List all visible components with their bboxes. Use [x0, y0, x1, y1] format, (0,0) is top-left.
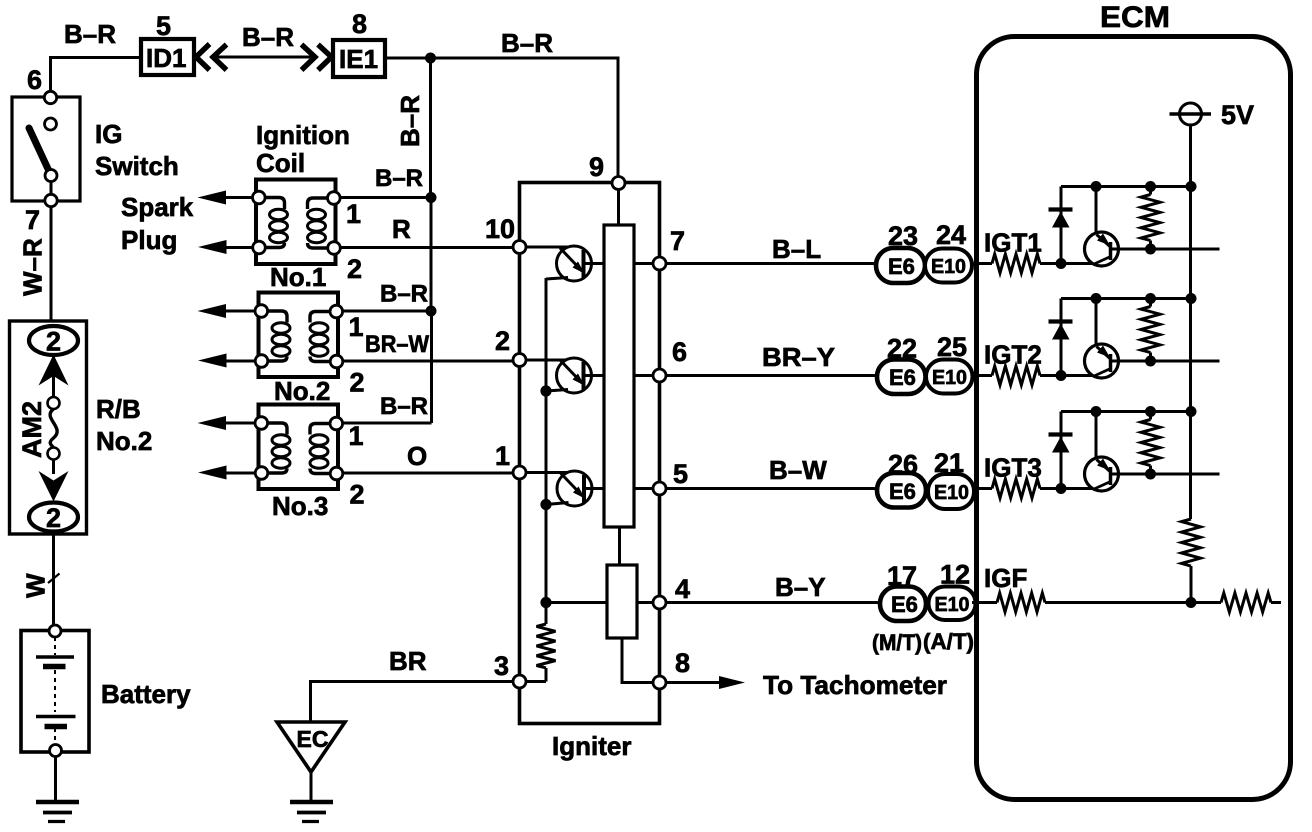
- wire: collector drop to Q4: [1095, 187, 1098, 233]
- svg-text:9: 9: [589, 152, 604, 182]
- igniter pin 1: [513, 466, 526, 479]
- ignition coil No.2: [255, 293, 343, 378]
- svg-text:E10: E10: [934, 482, 969, 504]
- AM2 fuse clip arrow (down): [39, 471, 69, 502]
- resistor (IGT1 pull-up): [1149, 187, 1152, 250]
- svg-text:5V: 5V: [1221, 100, 1254, 130]
- svg-text:W–R: W–R: [18, 238, 48, 296]
- wire: IE1 right, down to igniter pin 9: [385, 58, 618, 180]
- svg-text:B–R: B–R: [375, 165, 423, 192]
- wire: igniter pin 8 to tachometer: [666, 681, 720, 684]
- node: IGT3 diode junction: [1056, 483, 1067, 494]
- wire: taps from resistor block to pins 7,6,5: [634, 264, 653, 489]
- resistor (IGT3 input): [992, 479, 1040, 498]
- wire: pin 9 to ballast resistor block: [617, 189, 620, 225]
- resistor (IGF series right): [1221, 593, 1271, 612]
- wire: collector drop to Q5: [1095, 299, 1098, 345]
- battery internal dashed link: [54, 637, 56, 744]
- AM2 fuse clip arrow (up): [39, 355, 69, 386]
- IG switch lever: [29, 128, 49, 170]
- svg-text:R: R: [392, 214, 411, 244]
- svg-text:E6: E6: [889, 479, 916, 504]
- wire: coil1 pin2 (R) to igniter pin 10: [341, 246, 520, 249]
- svg-text:5: 5: [156, 11, 171, 41]
- resistor (IGT2 pull-up): [1149, 299, 1152, 362]
- igniter pin 8: [653, 676, 666, 689]
- ECM enclosure: [977, 37, 1291, 800]
- diode D3 (clamp): [1049, 432, 1073, 436]
- svg-text:No.3: No.3: [272, 491, 328, 521]
- igniter pin 7: [653, 257, 666, 270]
- AM2 terminal oval 2 (bottom): [29, 503, 78, 532]
- AM2 fuse wavy element: [50, 409, 57, 448]
- svg-text:EC: EC: [297, 726, 329, 752]
- wire: diode branch up: [1060, 299, 1063, 376]
- wire: Q4 emitter line: [1111, 248, 1220, 251]
- svg-text:IGT1: IGT1: [984, 228, 1042, 258]
- wire: pin 1 into transistor Q3: [526, 471, 569, 474]
- igniter block: [513, 177, 666, 724]
- wire: coil1 pin1 to B-R net: [340, 196, 431, 199]
- ground (EC): [290, 800, 333, 805]
- wire: resistor block to monitor block: [618, 527, 621, 565]
- transistor Q4 (ECM IGT1): [1085, 232, 1119, 266]
- wire: IGT3 input: [972, 487, 1092, 490]
- svg-text:7: 7: [25, 205, 40, 235]
- monitor block (small rectangle): [607, 565, 637, 638]
- wire: emitter bus to monitor block and pin 4: [546, 601, 653, 604]
- svg-text:R/B: R/B: [96, 394, 141, 424]
- node: junction at coil1 pin1: [426, 192, 437, 203]
- IG switch terminal 6: [44, 91, 56, 103]
- wire: IGT2 input: [972, 374, 1092, 377]
- transistor Q5 (ECM IGT2): [1085, 344, 1119, 378]
- battery terminal (top): [49, 625, 61, 637]
- wire: igniter pin 7 to ECM IGT1 (B-L): [666, 262, 877, 265]
- svg-text:E10: E10: [931, 256, 966, 278]
- wire: 5V rail (vertical): [1189, 125, 1192, 519]
- svg-text:O: O: [407, 441, 427, 471]
- svg-text:ECM: ECM: [1100, 1, 1170, 34]
- svg-text:B–R: B–R: [64, 19, 116, 49]
- svg-text:Ignition: Ignition: [256, 120, 350, 150]
- svg-text:1: 1: [495, 441, 510, 471]
- igniter pin 2: [513, 354, 526, 367]
- wire: IGF input: [972, 601, 1221, 604]
- fuse block AM2 R/B No.2: [10, 321, 87, 534]
- svg-text:No.1: No.1: [270, 262, 326, 292]
- svg-text:E6: E6: [891, 592, 918, 617]
- node: B-R junction right of IE1: [425, 53, 436, 64]
- svg-text:B–W: B–W: [769, 455, 827, 485]
- wire: B-R vertical distribution to coils: [431, 58, 432, 423]
- node: IGT1 diode junction: [1056, 258, 1067, 269]
- ground EC (triangle): [277, 722, 345, 772]
- connector IE1: [333, 40, 385, 77]
- svg-text:6: 6: [27, 65, 42, 95]
- node: rail junctions: [1091, 406, 1102, 417]
- svg-text:8: 8: [675, 648, 690, 678]
- transistor Q6 (ECM IGT3): [1085, 457, 1119, 491]
- resistor (IGF input): [997, 593, 1045, 612]
- igniter pin 6: [653, 369, 666, 382]
- IG switch terminal 7: [45, 194, 57, 206]
- svg-text:BR: BR: [389, 646, 427, 676]
- resistor (IGT2 input): [992, 366, 1040, 385]
- ballast resistor block (tall rectangle): [604, 225, 634, 527]
- wire: Q6 emitter line: [1111, 473, 1220, 476]
- 5V supply: [1180, 103, 1202, 125]
- svg-text:24: 24: [936, 220, 966, 250]
- node: rail junctions: [1091, 293, 1102, 304]
- diode D2 (clamp): [1049, 319, 1073, 323]
- wire: pin 10 into transistor Q1: [526, 246, 569, 249]
- wire tick: [48, 574, 60, 584]
- wire: EC triangle to ground: [310, 770, 313, 801]
- wire: IGT3 top rail: [1061, 410, 1191, 413]
- node: emitter junction: [1145, 356, 1156, 367]
- IG switch inner contact circle: [45, 118, 57, 130]
- wire: coil2 pin2 (BR-W) to igniter pin 2: [343, 360, 520, 363]
- igniter outline: [520, 183, 660, 724]
- wire: coil3 pin1 up to B-R net: [343, 422, 432, 425]
- svg-text:(A/T): (A/T): [923, 629, 974, 654]
- wire: ID1 to IE1: [216, 56, 312, 59]
- svg-text:3: 3: [494, 651, 509, 681]
- svg-text:1: 1: [346, 199, 361, 229]
- igniter pin 3: [513, 675, 526, 688]
- connector chevrons at ID1 (female): [196, 44, 227, 70]
- svg-text:B–R: B–R: [380, 281, 428, 308]
- svg-text:E10: E10: [935, 594, 970, 616]
- spark plug arrow (coil2 bottom): [218, 360, 255, 363]
- svg-text:B–L: B–L: [772, 234, 821, 264]
- resistor (5V rail to IGF node): [1182, 519, 1201, 566]
- resistor (IGT1 input): [992, 254, 1040, 273]
- wire: IGT2 top rail: [1061, 297, 1191, 300]
- wire: igniter pin 6 to ECM IGT2 (BR-Y): [666, 374, 878, 377]
- AM2 terminal oval 2 (top): [29, 326, 78, 355]
- spark plug arrow (coil1 secondary top): [218, 196, 253, 199]
- battery cell 2 plates: [36, 715, 76, 719]
- AM2 fuse end circle (top): [48, 397, 60, 409]
- svg-text:2: 2: [46, 503, 61, 533]
- svg-text:IGT3: IGT3: [984, 453, 1042, 483]
- spark plug arrow (coil3 bottom): [218, 472, 255, 475]
- svg-text:B–R: B–R: [380, 393, 428, 420]
- node: junction at coil2 pin1: [426, 306, 437, 317]
- svg-text:2: 2: [350, 480, 365, 510]
- battery terminal (bottom): [50, 745, 62, 757]
- wire: igniter pin 3 to EC ground (BR): [311, 682, 514, 723]
- svg-text:2: 2: [350, 368, 365, 398]
- igniter pin 5: [653, 482, 666, 495]
- wire: IGT1 input: [972, 262, 1092, 265]
- ground (battery): [36, 800, 79, 805]
- svg-text:2: 2: [347, 254, 362, 284]
- svg-text:E6: E6: [888, 254, 915, 279]
- transistor Q1 (igniter): [546, 246, 604, 281]
- transistor Q3 (igniter): [546, 471, 604, 506]
- svg-text:B–R: B–R: [395, 95, 425, 147]
- svg-text:Plug: Plug: [121, 225, 177, 255]
- svg-text:E6: E6: [889, 365, 916, 390]
- ignition coil No.1: [252, 180, 340, 265]
- svg-text:ID1: ID1: [146, 43, 186, 73]
- node: emitter junction: [1145, 469, 1156, 480]
- wire: coil3 pin2 (O) to igniter pin 1: [343, 472, 520, 475]
- wire: coil2 pin1 to B-R net: [343, 310, 432, 313]
- svg-text:Spark: Spark: [121, 192, 194, 222]
- svg-text:E10: E10: [932, 367, 967, 389]
- svg-text:IG: IG: [95, 119, 122, 149]
- svg-text:B–R: B–R: [242, 22, 294, 52]
- svg-text:2: 2: [46, 327, 61, 357]
- node: emitter bus junction to monitor: [540, 597, 551, 608]
- node: IGT2 diode junction: [1056, 370, 1067, 381]
- spark plug arrow (coil1 secondary bottom): [218, 246, 253, 249]
- spark plug arrow (coil2 top): [218, 310, 255, 313]
- ignition coil No.3: [255, 405, 343, 490]
- diode D1 (clamp): [1049, 207, 1073, 211]
- battery cell 1 plates: [36, 655, 74, 659]
- svg-text:4: 4: [675, 574, 690, 604]
- node: emitter junction: [1145, 244, 1156, 255]
- spark plug arrow (coil3 top): [218, 422, 255, 425]
- svg-text:Switch: Switch: [95, 151, 179, 181]
- svg-text:B–R: B–R: [501, 28, 553, 58]
- wire: diode branch up: [1060, 187, 1063, 264]
- svg-text:10: 10: [485, 214, 515, 244]
- svg-text:1: 1: [349, 312, 364, 342]
- wire: igniter pin 5 to ECM IGT3 (B-W): [666, 487, 878, 490]
- igniter pin 10: [513, 241, 526, 254]
- IG switch lever contact circle: [45, 170, 57, 182]
- node: emitter bus junction at Q2: [540, 385, 551, 396]
- svg-text:IE1: IE1: [339, 44, 378, 74]
- svg-text:2: 2: [495, 326, 510, 356]
- svg-text:Battery: Battery: [101, 679, 191, 709]
- wire: resistor to pin 3 wire: [526, 668, 546, 682]
- svg-text:BR–W: BR–W: [365, 331, 429, 358]
- resistor (igniter emitter to pin 3): [537, 624, 556, 668]
- node: emitter bus junction at Q3: [540, 499, 551, 510]
- wire: igniter pin 4 to ECM IGF (B-Y): [666, 601, 881, 604]
- igniter pin 9: [612, 177, 625, 190]
- svg-text:AM2: AM2: [17, 401, 47, 458]
- svg-text:7: 7: [670, 226, 685, 256]
- node: rail junctions: [1091, 181, 1102, 192]
- resistor (IGT3 pull-up): [1149, 412, 1152, 475]
- wire: pin 2 into transistor Q2: [526, 359, 569, 362]
- wire: IG switch terminal 6 up and right to ID1: [51, 58, 142, 93]
- node: IGF junction with 5V pull-up: [1186, 597, 1197, 608]
- svg-text:1: 1: [349, 421, 364, 451]
- svg-text:8: 8: [352, 9, 367, 39]
- svg-text:5: 5: [673, 459, 688, 489]
- wire: Q5 emitter line: [1111, 360, 1220, 363]
- svg-text:No.2: No.2: [274, 376, 330, 406]
- wire: emitter bus (vertical): [545, 278, 548, 624]
- svg-text:B–Y: B–Y: [775, 572, 826, 602]
- arrow to tachometer: [719, 676, 745, 689]
- wire: IG switch 7 down to AM2 fuse (W-R): [50, 207, 53, 322]
- wire: IGF stub: [1271, 601, 1281, 604]
- battery: [21, 625, 89, 757]
- igniter pin 4: [653, 596, 666, 609]
- wire: collector drop to Q6: [1095, 412, 1098, 458]
- transistor Q2 (igniter): [546, 358, 604, 393]
- svg-text:W: W: [21, 573, 51, 598]
- wire: AM2 to battery (W): [52, 534, 55, 625]
- wire: monitor block to pin 8: [622, 638, 653, 683]
- svg-text:(M/T): (M/T): [872, 630, 922, 655]
- svg-text:Igniter: Igniter: [552, 731, 631, 761]
- wire: lever contact to terminal 7: [50, 181, 53, 195]
- svg-text:No.2: No.2: [96, 426, 152, 456]
- svg-text:IGT2: IGT2: [984, 340, 1042, 370]
- svg-text:BR–Y: BR–Y: [762, 342, 835, 372]
- wire: IGT1 top rail: [1061, 185, 1191, 188]
- connector chevrons at IE1 (male): [302, 45, 332, 71]
- AM2 fuse end circle (bottom): [48, 448, 60, 460]
- wire: battery to ground: [54, 757, 57, 802]
- svg-text:To Tachometer: To Tachometer: [763, 670, 947, 700]
- wire: diode branch up: [1060, 412, 1063, 489]
- IG switch: [12, 91, 80, 206]
- svg-text:6: 6: [672, 337, 687, 367]
- connector ID1: [141, 39, 194, 75]
- svg-text:Coil: Coil: [256, 148, 305, 178]
